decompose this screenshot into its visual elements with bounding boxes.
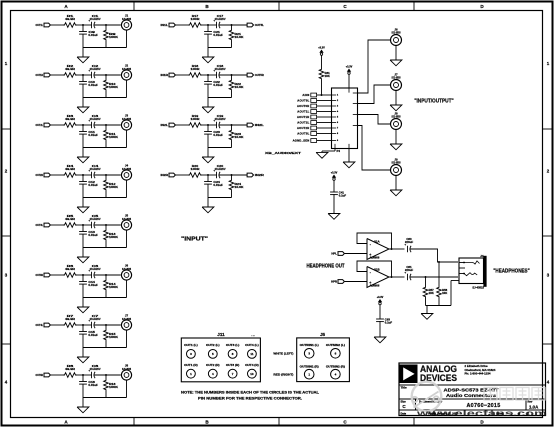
wire — [94, 374, 121, 376]
svg-text:+: + — [88, 169, 90, 173]
wire — [345, 281, 367, 283]
capacitor C21 0.01uF — [207, 25, 209, 32]
wire — [176, 174, 188, 176]
svg-text:100K: 100K — [109, 35, 118, 39]
wire — [345, 253, 367, 255]
svg-text:+3.3V: +3.3V — [331, 172, 338, 175]
svg-text:OUT5L: OUT5L — [255, 23, 264, 27]
ground — [343, 162, 355, 168]
op-amp U1A AD8606 — [367, 239, 389, 260]
capacitor C14 0.01uF — [82, 275, 84, 282]
wire — [94, 174, 121, 176]
svg-text:10K: 10K — [442, 291, 447, 295]
node IN2RB — [231, 174, 233, 176]
wire feedback — [357, 233, 392, 249]
svg-text:P4: P4 — [337, 149, 341, 153]
svg-text:AOUT2L: AOUT2L — [297, 121, 309, 125]
svg-text:47uF/25V: 47uF/25V — [90, 17, 101, 21]
wire — [126, 80, 128, 97]
svg-text:47uF/25V: 47uF/25V — [90, 67, 101, 71]
svg-text:+: + — [88, 269, 90, 273]
capacitor C13 0.01uF — [82, 225, 84, 232]
ground — [77, 157, 89, 163]
pin 3 — [332, 105, 337, 107]
svg-text:AD8606: AD8606 — [370, 256, 380, 260]
resistor R23 20K — [231, 125, 233, 129]
svg-text:10.0K: 10.0K — [235, 85, 244, 89]
svg-text:100R: 100R — [191, 67, 201, 71]
power +3.3V — [378, 299, 382, 302]
svg-text:www.elecfans.com: www.elecfans.com — [415, 409, 547, 418]
resistor R16 100K — [105, 375, 107, 379]
svg-text:+: + — [404, 271, 406, 275]
wire — [94, 324, 121, 326]
svg-text:OUT4R: OUT4R — [36, 373, 44, 377]
svg-text:OUT2 (L): OUT2 (L) — [206, 343, 220, 347]
svg-text:+: + — [88, 69, 90, 73]
pin 10 — [353, 92, 358, 94]
svg-text:0.01uF: 0.01uF — [213, 33, 223, 37]
node OUT3LA — [82, 224, 84, 226]
wire — [317, 133, 332, 135]
ground — [77, 357, 89, 363]
svg-text:10.0K: 10.0K — [235, 35, 244, 39]
resistor R15 100K — [105, 325, 107, 329]
svg-text:OUT2L: OUT2L — [36, 123, 44, 127]
wire — [51, 374, 63, 376]
svg-text:47uF/25V: 47uF/25V — [215, 117, 226, 121]
wire — [317, 127, 332, 129]
node OUT2LA — [82, 124, 84, 126]
pin 15 — [334, 144, 336, 149]
svg-text:OUT4 (L): OUT4 (L) — [245, 343, 259, 347]
svg-text:47uF/25V: 47uF/25V — [90, 367, 101, 371]
svg-text:OUT1L: OUT1L — [36, 23, 44, 27]
ground — [390, 144, 402, 150]
node HPRA — [425, 276, 427, 278]
ground — [77, 207, 89, 213]
wire — [379, 305, 381, 319]
wire — [51, 224, 63, 226]
svg-text:100K: 100K — [109, 285, 118, 289]
wire — [410, 276, 458, 278]
svg-text:AD8606: AD8606 — [370, 284, 380, 288]
resistor R11 100K — [105, 125, 107, 129]
wire — [317, 100, 332, 102]
wire — [202, 174, 217, 176]
svg-text:AGND_SEN: AGND_SEN — [293, 139, 310, 143]
svg-text:+: + — [88, 319, 90, 323]
svg-text:0.01uF: 0.01uF — [88, 33, 98, 37]
svg-text:OUT1R: OUT1R — [36, 73, 44, 77]
wire — [395, 90, 397, 105]
node IN1RA — [207, 74, 209, 76]
svg-text:"INPUT/OUTPUT": "INPUT/OUTPUT" — [414, 98, 454, 104]
svg-text:"HEADPHONES": "HEADPHONES" — [493, 269, 530, 275]
svg-text:0.01uF: 0.01uF — [213, 183, 223, 187]
svg-text:U1A: U1A — [374, 240, 380, 244]
svg-text:0.01uF: 0.01uF — [88, 83, 98, 87]
resistor R12 100K — [105, 175, 107, 179]
svg-text:47uF/25V: 47uF/25V — [215, 67, 226, 71]
wire to jack J6 — [358, 40, 391, 93]
svg-text:0.01uF: 0.01uF — [88, 333, 98, 337]
svg-text:OUT3 (L): OUT3 (L) — [226, 343, 240, 347]
svg-text:AOUT1R: AOUT1R — [297, 115, 310, 119]
svg-text:J4: J4 — [480, 254, 484, 258]
svg-text:100K: 100K — [109, 185, 118, 189]
wire — [77, 274, 92, 276]
svg-text:U1B: U1B — [374, 268, 380, 272]
svg-text:AOUT3L: AOUT3L — [297, 132, 309, 136]
wire — [450, 281, 452, 306]
svg-text:100R: 100R — [191, 17, 201, 21]
capacitor C15 0.01uF — [82, 325, 84, 332]
svg-text:+3.3V: +3.3V — [318, 47, 325, 50]
jack switch contact top — [464, 261, 480, 264]
svg-text:+: + — [88, 19, 90, 23]
wire — [51, 324, 63, 326]
svg-text:OUT4L: OUT4L — [36, 323, 44, 327]
pin 1 — [332, 94, 337, 96]
wire — [317, 140, 332, 142]
node OUT4LB — [105, 324, 107, 326]
connector J2 body — [332, 88, 358, 149]
svg-text:OUT5/IN2 (R): OUT5/IN2 (R) — [326, 365, 345, 368]
svg-text:47uF/25V: 47uF/25V — [215, 17, 226, 21]
wire — [202, 24, 217, 26]
title block frame — [399, 363, 546, 416]
svg-text:HPR: HPR — [331, 280, 337, 284]
node OUT3RA — [82, 274, 84, 276]
svg-text:47uF/25V: 47uF/25V — [90, 167, 101, 171]
ground — [421, 314, 433, 320]
node IN2LB — [231, 124, 233, 126]
pin 11 — [353, 103, 358, 105]
svg-text:49.9R: 49.9R — [65, 267, 76, 271]
node OUT1LB — [105, 24, 107, 26]
wire — [333, 194, 335, 214]
pin 12 — [353, 114, 358, 116]
svg-text:100R: 100R — [191, 117, 201, 121]
wire — [348, 74, 350, 88]
svg-text:11: 11 — [250, 352, 254, 356]
svg-text:OUT3 (R): OUT3 (R) — [226, 363, 240, 367]
capacitor C24 0.01uF — [207, 175, 209, 182]
svg-text:XB_AUDIO/EXT: XB_AUDIO/EXT — [265, 151, 301, 155]
wire — [176, 74, 188, 76]
ground — [77, 307, 89, 313]
svg-text:100K: 100K — [109, 235, 118, 239]
svg-text:OUT5R: OUT5R — [255, 73, 264, 77]
wire — [317, 111, 332, 113]
wire — [334, 149, 336, 152]
svg-text:OUT4 (R): OUT4 (R) — [245, 363, 259, 367]
svg-text:+: + — [213, 169, 215, 173]
svg-text:OUT5/IN1 (L): OUT5/IN1 (L) — [300, 344, 319, 347]
svg-text:100K: 100K — [109, 135, 118, 139]
wire — [208, 197, 232, 199]
svg-text:AOUT1L: AOUT1L — [297, 110, 309, 114]
svg-text:0.01uF: 0.01uF — [88, 283, 98, 287]
watermark glyphs — [484, 388, 497, 401]
wire — [77, 124, 92, 126]
resistor R58 10K — [438, 262, 440, 286]
wire to jack J9 — [358, 126, 391, 171]
node OUT2RA — [82, 174, 84, 176]
wire — [126, 180, 128, 197]
svg-text:47uF/25V: 47uF/25V — [90, 117, 101, 121]
svg-text:AOUT2R: AOUT2R — [297, 126, 310, 130]
svg-text:49.9R: 49.9R — [65, 67, 76, 71]
svg-text:49.9R: 49.9R — [65, 217, 76, 221]
node OUT4RA — [82, 374, 84, 376]
watermark logo circle — [412, 382, 442, 412]
ground — [390, 60, 402, 66]
wire — [333, 180, 335, 192]
svg-text:Size: Size — [401, 399, 407, 403]
svg-text:OUT1 (R): OUT1 (R) — [184, 363, 198, 367]
pin 16 — [348, 144, 350, 149]
port IN2R — [247, 173, 253, 177]
svg-text:0.01uF: 0.01uF — [88, 183, 98, 187]
ground — [316, 152, 328, 158]
pin 1 — [459, 262, 465, 264]
resistor R13 100K — [105, 225, 107, 229]
svg-text:0.01uF: 0.01uF — [88, 383, 98, 387]
svg-text:PIN NUMBER FOR THE RESPECTIVE: PIN NUMBER FOR THE RESPECTIVE CONNECTOR. — [198, 396, 302, 400]
svg-text:OUT1 (L): OUT1 (L) — [184, 343, 198, 347]
node OUT3LB — [105, 224, 107, 226]
svg-text:47uF/25V: 47uF/25V — [90, 217, 101, 221]
wire — [126, 130, 128, 147]
svg-text:100R: 100R — [191, 167, 201, 171]
svg-text:Audio Connectors: Audio Connectors — [446, 393, 496, 399]
wire — [51, 74, 63, 76]
wire — [94, 274, 121, 276]
wire — [202, 124, 217, 126]
svg-text:. ...: . ... — [251, 334, 255, 337]
ground — [77, 107, 89, 113]
resistor R22 20K — [231, 75, 233, 79]
wire — [51, 174, 63, 176]
svg-text:OUT5/IN2 (L): OUT5/IN2 (L) — [326, 344, 345, 347]
wire — [395, 175, 397, 190]
svg-text:+: + — [88, 119, 90, 123]
node OUT1LA — [82, 24, 84, 26]
svg-text:47uF/25V: 47uF/25V — [90, 267, 101, 271]
svg-text:10.0K: 10.0K — [235, 185, 244, 189]
capacitor C11 0.01uF — [82, 125, 84, 132]
zone ticks left — [3, 128, 11, 130]
wire — [321, 81, 323, 96]
svg-text:47uF/25V: 47uF/25V — [90, 317, 101, 321]
svg-text:0.01uF: 0.01uF — [88, 233, 98, 237]
svg-text:49.9R: 49.9R — [65, 367, 76, 371]
node R31-AIN0 — [321, 94, 323, 96]
ground — [77, 257, 89, 263]
ground — [390, 190, 402, 196]
svg-text:49.9R: 49.9R — [65, 117, 76, 121]
svg-text:IN1R: IN1R — [161, 73, 169, 77]
node OUT3RB — [105, 274, 107, 276]
svg-text:J11: J11 — [217, 332, 225, 337]
capacitor C16 0.01uF — [82, 375, 84, 382]
svg-text:OUT2R: OUT2R — [36, 173, 44, 177]
wire — [94, 124, 121, 126]
svg-text:10K: 10K — [429, 291, 434, 295]
node OUT1RB — [105, 74, 107, 76]
zone ticks top — [133, 3, 135, 11]
ground — [202, 107, 214, 113]
svg-text:IN2L: IN2L — [255, 123, 265, 127]
svg-text:47uF/25V: 47uF/25V — [215, 167, 226, 171]
wire — [94, 224, 121, 226]
node OUT2RB — [105, 174, 107, 176]
wire — [317, 105, 332, 107]
Analog Devices logo — [400, 365, 418, 384]
pin 2 — [332, 100, 337, 102]
node IN2LA — [207, 124, 209, 126]
resistor R10 100K — [105, 75, 107, 79]
wire — [94, 74, 121, 76]
svg-text:+3.3V: +3.3V — [346, 66, 353, 69]
wire — [77, 74, 92, 76]
node HPLA — [438, 261, 440, 263]
pin 9 — [332, 140, 337, 142]
capacitor C9 0.01uF — [82, 25, 84, 32]
wire — [389, 276, 405, 278]
wire — [208, 147, 232, 149]
svg-text:HPL: HPL — [331, 252, 337, 256]
node IN2RA — [207, 174, 209, 176]
pin 14 — [348, 88, 350, 93]
wire — [77, 324, 92, 326]
node IN1LB — [231, 24, 233, 26]
svg-text:100K: 100K — [109, 385, 118, 389]
port OUT5R — [247, 73, 253, 77]
resistor R9 100K — [105, 25, 107, 29]
wire — [176, 124, 188, 126]
wire — [410, 249, 458, 262]
wire — [219, 74, 247, 76]
node OUT4LA — [82, 324, 84, 326]
svg-text:AIN0: AIN0 — [302, 93, 309, 97]
wire — [77, 24, 92, 26]
svg-text:+: + — [213, 69, 215, 73]
wire — [176, 24, 188, 26]
pin 8 — [332, 133, 337, 135]
port OUT5L — [247, 23, 253, 27]
resistor R57 10K — [425, 277, 427, 286]
svg-text:NOTE: THE NUMBERS INSIDE EACH: NOTE: THE NUMBERS INSIDE EACH OF THE CIR… — [181, 390, 319, 394]
svg-text:49.9R: 49.9R — [65, 167, 76, 171]
svg-text:Ph: 1-800-444-1234: Ph: 1-800-444-1234 — [465, 371, 491, 375]
pin 5 — [332, 116, 337, 118]
svg-text:J5: J5 — [320, 332, 326, 337]
wire — [51, 274, 63, 276]
wire — [208, 47, 232, 49]
svg-text:OUT3L: OUT3L — [36, 223, 44, 227]
svg-text:AOUT0L: AOUT0L — [297, 99, 309, 103]
zone ticks bottom — [133, 418, 135, 425]
wire — [77, 224, 92, 226]
ground — [390, 105, 402, 111]
svg-text:0.01uF: 0.01uF — [213, 133, 223, 137]
svg-text:+: + — [88, 219, 90, 223]
svg-text:+3.3V: +3.3V — [377, 296, 384, 299]
wire — [395, 129, 397, 144]
svg-text:0.01uF: 0.01uF — [213, 83, 223, 87]
wire — [126, 380, 128, 397]
svg-text:0.1uF: 0.1uF — [339, 194, 347, 198]
wire — [426, 305, 452, 307]
port IN2L — [247, 123, 253, 127]
wire — [395, 45, 397, 60]
resistor R14 100K — [105, 275, 107, 279]
svg-text:IN2R: IN2R — [161, 173, 169, 177]
wire — [317, 122, 332, 124]
wire — [126, 230, 128, 247]
pin sleeve — [451, 280, 459, 282]
capacitor C12 0.01uF — [82, 175, 84, 182]
svg-text:+: + — [213, 19, 215, 23]
wire — [126, 30, 128, 47]
ground — [374, 337, 386, 343]
wire — [219, 24, 247, 26]
svg-text:0.1uF: 0.1uF — [385, 321, 393, 325]
svg-text:IN2R: IN2R — [255, 173, 264, 177]
wire — [219, 174, 247, 176]
wire — [348, 149, 350, 163]
wire to jack J7 — [358, 85, 391, 104]
svg-text:Date: Date — [401, 412, 407, 416]
svg-text:OUT3R: OUT3R — [36, 273, 44, 277]
svg-text:49.9R: 49.9R — [65, 317, 76, 321]
svg-text:10K: 10K — [325, 74, 330, 78]
ground — [202, 207, 214, 213]
svg-text:RED (RIGHT): RED (RIGHT) — [273, 372, 293, 376]
wire — [77, 374, 92, 376]
node IN1RB — [231, 74, 233, 76]
svg-text:100K: 100K — [109, 335, 118, 339]
capacitor C22 0.01uF — [207, 75, 209, 82]
capacitor C23 0.01uF — [207, 125, 209, 132]
zone ticks right — [543, 128, 553, 130]
jack switch contact bottom — [464, 273, 477, 276]
svg-text:WHITE (LEFT): WHITE (LEFT) — [273, 351, 293, 355]
pin 13 — [353, 125, 358, 127]
pin 6 — [332, 122, 337, 124]
capacitor C10 0.01uF — [82, 75, 84, 82]
resistor R24 20K — [231, 175, 233, 179]
svg-text:SJ-43515: SJ-43515 — [472, 285, 484, 289]
node IN1LA — [207, 24, 209, 26]
wire — [208, 97, 232, 99]
ground — [328, 214, 340, 220]
svg-text:"INPUT": "INPUT" — [181, 237, 209, 243]
svg-text:+: + — [88, 369, 90, 373]
power +3.3V — [332, 175, 336, 178]
ground — [77, 57, 89, 63]
op-amp U1B AD8606 — [367, 267, 389, 288]
pin 4 — [332, 111, 337, 113]
svg-text:OUT2 (R): OUT2 (R) — [206, 363, 220, 367]
svg-text:+: + — [404, 243, 406, 247]
svg-text:100K: 100K — [109, 85, 118, 89]
wire — [202, 74, 217, 76]
svg-text:Title: Title — [401, 386, 407, 390]
